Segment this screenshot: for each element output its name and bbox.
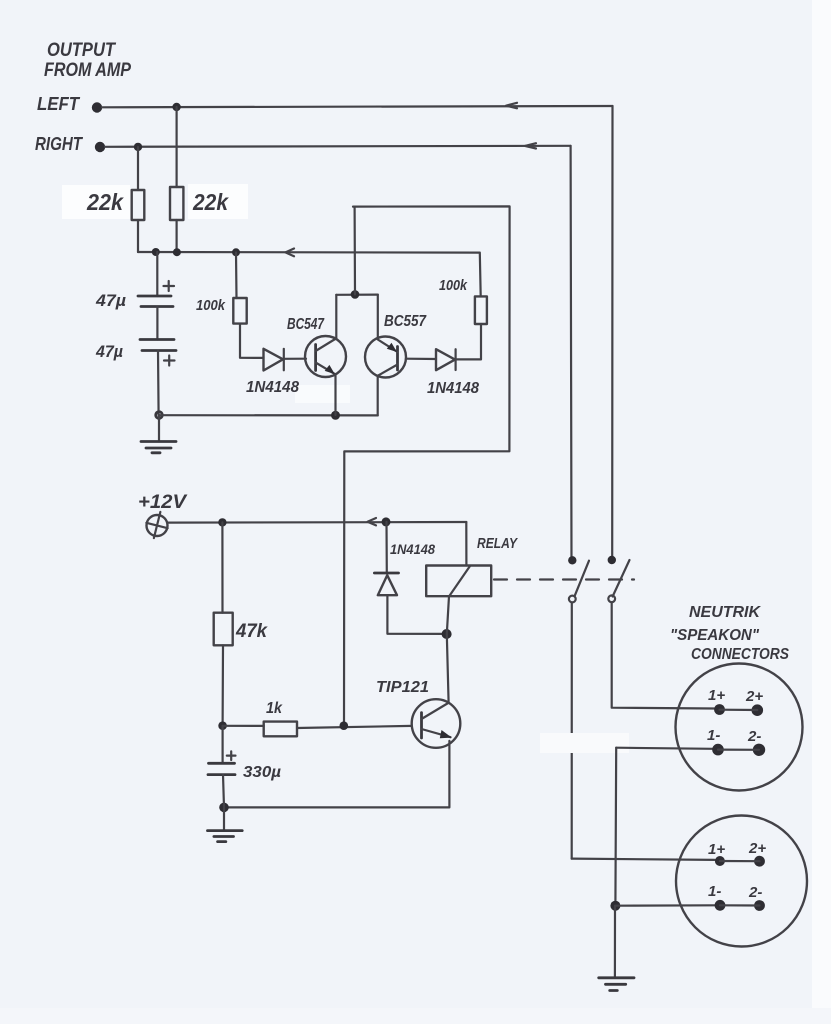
svg-text:NEUTRIK: NEUTRIK (689, 604, 761, 621)
svg-text:1N4148: 1N4148 (390, 541, 435, 557)
svg-text:2-: 2- (747, 728, 761, 745)
svg-text:330µ: 330µ (243, 764, 281, 781)
svg-text:FROM AMP: FROM AMP (44, 60, 131, 81)
svg-text:1-: 1- (708, 883, 721, 900)
svg-text:1N4148: 1N4148 (427, 380, 479, 397)
svg-text:1+: 1+ (708, 841, 725, 858)
svg-text:CONNECTORS: CONNECTORS (691, 646, 789, 663)
svg-text:2+: 2+ (745, 688, 763, 705)
svg-text:"SPEAKON": "SPEAKON" (670, 627, 759, 644)
svg-text:22k: 22k (192, 189, 229, 215)
svg-text:RELAY: RELAY (477, 535, 519, 552)
svg-text:1+: 1+ (708, 687, 725, 704)
svg-text:BC557: BC557 (384, 313, 427, 330)
svg-text:1N4148: 1N4148 (246, 379, 299, 396)
svg-text:100k: 100k (439, 277, 468, 294)
svg-text:RIGHT: RIGHT (35, 134, 84, 154)
svg-text:100k: 100k (196, 297, 226, 314)
svg-text:2+: 2+ (748, 840, 766, 857)
svg-text:BC547: BC547 (287, 316, 325, 333)
svg-text:+12V: +12V (138, 492, 187, 513)
svg-text:47µ: 47µ (95, 342, 123, 361)
svg-text:LEFT: LEFT (37, 94, 81, 114)
svg-text:22k: 22k (86, 189, 124, 215)
svg-text:2-: 2- (748, 884, 762, 901)
svg-text:47k: 47k (235, 621, 268, 642)
svg-text:1-: 1- (707, 727, 720, 744)
svg-text:TIP121: TIP121 (376, 679, 429, 696)
svg-text:47µ: 47µ (95, 291, 126, 310)
svg-text:1k: 1k (266, 700, 283, 717)
svg-text:OUTPUT: OUTPUT (47, 40, 116, 61)
